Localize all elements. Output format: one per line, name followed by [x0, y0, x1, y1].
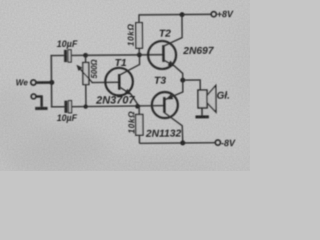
T2 collector: [163, 15, 182, 47]
capacitor C2 plate (hollow): [69, 101, 72, 113]
wire: left vertical bus: [50, 55, 52, 107]
node B: top bias node: [137, 52, 142, 57]
capacitor C2: wire from left bus: [51, 106, 65, 108]
transistor T2 2N697 body: [148, 41, 176, 69]
node: T2 collector to rail: [180, 12, 185, 17]
wire: +8V rail: [138, 13, 211, 16]
film grain overlay: [0, 0, 250, 171]
node C: T1 emitter / R2 / T3 base: [135, 104, 140, 109]
terminal -8V: [215, 140, 220, 145]
capacitor C2 plate (solid): [64, 101, 67, 113]
wire: output node to speaker: [183, 80, 200, 90]
resistor 10k (bottom): leads: [138, 106, 140, 114]
wire: -8V rail: [139, 142, 215, 145]
potentiometer 500 ohm: bottom lead: [85, 85, 87, 107]
node: pot bottom junction: [83, 104, 87, 108]
transistor T1 2N3707 body: [105, 68, 133, 96]
potentiometer 500 ohm: wiper arrow: [80, 69, 93, 83]
wire: node A to node B (T2 base rail): [86, 54, 164, 57]
node: T3 collector to rail: [180, 140, 185, 145]
T1 collector: [119, 55, 140, 75]
wire: wiper to T1 base: [91, 81, 118, 83]
resistor 10k (top): leads: [138, 15, 140, 23]
wire: C1 to node A: [71, 54, 86, 56]
node: output node (speaker): [180, 78, 185, 83]
wire: C2 to T3 base: [72, 106, 164, 107]
node A: cap/pot junction: [83, 53, 88, 58]
node: input junction on left vertical: [49, 80, 54, 85]
wire: lower terminal to ground: [36, 96, 41, 106]
T2 emitter with arrow: [164, 60, 183, 80]
wire: speaker to ground: [201, 108, 203, 116]
capacitor C1 plate (solid): [64, 50, 67, 62]
potentiometer 500 ohm: top lead: [85, 55, 87, 62]
resistor 10k (bottom): body: [136, 114, 143, 135]
potentiometer 500 ohm: body: [83, 62, 89, 84]
paper background: [0, 0, 250, 171]
ground (speaker): [195, 115, 208, 118]
T3 collector: [164, 113, 182, 144]
T1 emitter with arrow: [119, 87, 137, 107]
transistor T3 2N1132 body: [152, 92, 178, 118]
wire: input terminal to junction (thick): [36, 81, 52, 84]
input terminal (top, signal): [31, 80, 36, 85]
speaker Gl.: [198, 90, 207, 108]
ground (input): [35, 107, 47, 110]
T3 emitter (PNP arrow toward base): [165, 80, 183, 99]
terminal +8V: [211, 12, 216, 17]
input terminal (bottom, ground side): [31, 94, 36, 99]
resistor 10k (top): body: [136, 23, 143, 49]
wire: to C1: [51, 54, 65, 56]
capacitor C1 plate (hollow): [68, 50, 71, 62]
